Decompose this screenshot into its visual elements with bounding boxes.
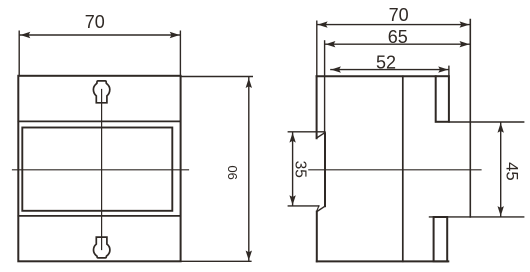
svg-text:45: 45	[502, 162, 521, 181]
svg-text:90: 90	[225, 165, 240, 179]
svg-text:70: 70	[389, 5, 409, 25]
svg-text:52: 52	[376, 52, 396, 72]
svg-text:35: 35	[292, 161, 309, 178]
svg-text:65: 65	[388, 27, 408, 47]
svg-text:70: 70	[85, 12, 105, 32]
